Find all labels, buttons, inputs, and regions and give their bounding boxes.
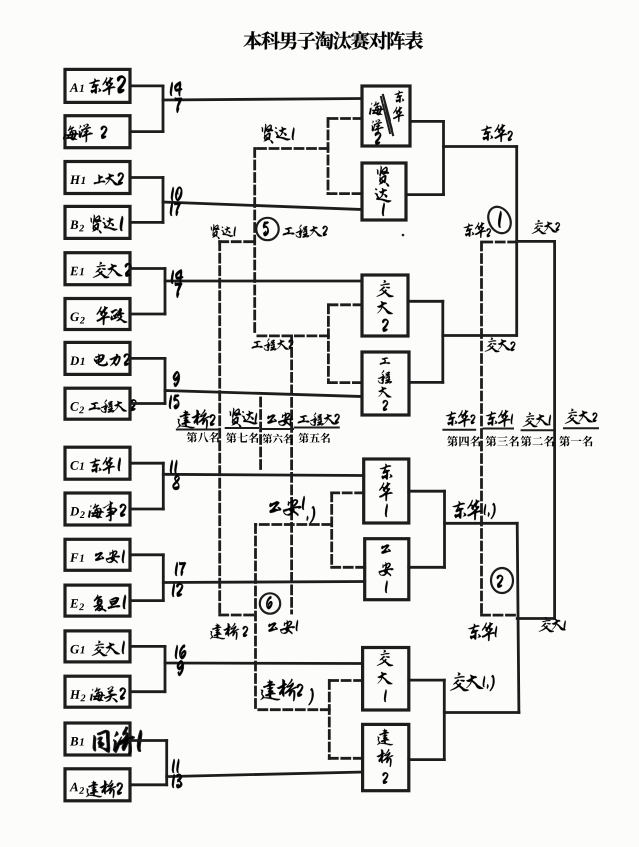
match circle 2 <box>491 568 513 593</box>
team box G2 华政 <box>65 299 130 330</box>
dashed wire third-place line <box>482 242 517 615</box>
label 贤达1 (match5 left) <box>211 224 236 239</box>
wire pair 1 bracket + winner line <box>130 86 362 132</box>
label 交大1 (SF4 winner) <box>450 672 495 691</box>
score pair 3: 14/7 <box>171 269 183 298</box>
wire final vertical (champion bracket) <box>553 241 556 618</box>
wire QF1 bracket (东华2 vs 贤达1) + winner line <box>406 121 517 194</box>
rank name 东华1 (3rd) <box>484 410 513 429</box>
label 工程大2 (QF2 loser) <box>252 338 294 351</box>
label 建桥2 (QF4 loser) <box>260 679 313 706</box>
QF box 贤达1 <box>362 163 406 220</box>
team box E2 复旦1 <box>65 585 130 616</box>
label 工程大2 (match5 right) <box>283 225 328 238</box>
rank label 第五名 <box>298 433 330 443</box>
label 公安1 (match6 right) <box>268 620 298 634</box>
rank name 建桥2 (8th) <box>177 409 218 429</box>
label 公安1 (QF3 loser) <box>269 496 315 524</box>
label 东华1 (third place) <box>468 622 497 641</box>
dashed wire QF2 losers bracket <box>255 305 362 383</box>
dashed wire 贤达1 drop line <box>253 149 256 336</box>
match circle 5 <box>256 218 278 240</box>
dashed wire 公安1 drop line <box>254 525 257 710</box>
label 东华1 (SF B winner) <box>452 499 495 520</box>
score pair 4: 9/15 <box>169 371 180 409</box>
score pair 8: 11/13 <box>172 759 182 789</box>
wire pair 4 bracket + winner line <box>130 358 362 403</box>
team box C2 工程大2 <box>65 388 136 419</box>
wire QF2 bracket (交大2 vs 工程大2) + winner line <box>408 301 517 382</box>
label 贤达1 (QF1 loser) <box>262 124 295 144</box>
wire pair 7 bracket + winner line <box>130 646 363 691</box>
ink dot <box>402 234 405 237</box>
rank label 第八名 <box>187 432 219 443</box>
score pair 2: 10/17 <box>170 187 182 216</box>
label 建桥2 (match6 left) <box>210 623 248 640</box>
rank label 第二名 <box>521 436 554 447</box>
team box D1 电力2 <box>65 342 130 374</box>
team box D2 海事2 <box>65 493 130 525</box>
team box A1 东华2 <box>65 69 130 102</box>
team box H1 上大2 <box>65 162 130 194</box>
label 交大1 (final winner bottom) <box>539 617 566 632</box>
rank name 公安1 (6th) <box>262 412 293 429</box>
team box 海洋2 <box>63 116 130 148</box>
score pair 7: 16/9 <box>175 645 186 676</box>
team box B1 同济1 <box>65 723 142 756</box>
dashed wire 工程大2 column to rank 5 <box>290 336 293 613</box>
title 本科男子淘汰赛对阵表 <box>244 31 423 50</box>
QF box 公安1 <box>365 539 409 600</box>
team box E1 交大2 <box>65 253 132 285</box>
wire pair 2 bracket + winner line <box>130 178 362 223</box>
rank label 第七名 <box>226 432 258 443</box>
rank name 东华2 (4th) <box>443 410 475 430</box>
dashed wire rank 7-6 separator <box>259 398 262 470</box>
score pair 5: 11/8 <box>170 460 180 490</box>
wire semifinal A vertical <box>515 147 518 336</box>
rank name 交大2 (1st) <box>564 409 598 428</box>
dashed wire QF1 losers bracket <box>255 119 362 194</box>
team box C1 东华1 <box>65 447 130 479</box>
wire final bottom: semifinal B winner to final <box>517 617 554 620</box>
QF box 交大2 <box>362 275 408 336</box>
dashed wire QF4 losers bracket <box>256 681 362 759</box>
QF box 交大1 <box>363 648 409 711</box>
label 交大2 (final winner top) <box>532 220 560 234</box>
team box F1 公安1 <box>65 539 130 570</box>
label 东华2 (SF A winner) <box>481 124 513 142</box>
wire pair 6 bracket + winner line <box>130 555 365 601</box>
wire final top: semifinal A winner to final <box>517 240 555 243</box>
team box H2 海关2 <box>65 676 130 707</box>
QF box 东华2 (海洋2 crossed out) <box>362 86 410 146</box>
team box B2 贤达1 <box>65 206 130 238</box>
wire semifinal B vertical <box>517 523 519 712</box>
team box G1 交大1 <box>65 631 130 662</box>
match circle 6 <box>260 593 280 613</box>
QF box 建桥2 <box>363 724 409 790</box>
match circle 1 <box>484 203 515 237</box>
dashed wire QF3 losers bracket <box>256 493 365 567</box>
rank label 第一名 <box>559 436 592 447</box>
score pair 6: 17/12 <box>172 562 186 597</box>
rank name 工程大2 (5th) <box>295 413 340 428</box>
rank name 交大1 (2nd) <box>522 413 554 431</box>
wire QF3 bracket (东华1 vs 公安1) + winner line <box>409 491 517 567</box>
wire pair 8 bracket + winner line <box>130 741 363 785</box>
wire pair 5 bracket + winner line <box>130 463 364 509</box>
label 交大2 (QF2 winner) <box>485 338 516 353</box>
team box A2 建桥2 <box>65 769 130 801</box>
rank label 第四名 <box>447 436 480 447</box>
wire pair 3 bracket + winner line <box>130 269 362 315</box>
wire QF4 bracket (交大1 vs 建桥2) + winner line <box>409 680 519 760</box>
rank name 贤达1 (7th) <box>226 408 258 428</box>
rank label 第六名 <box>262 434 292 444</box>
score pair 1: 14/7 <box>170 81 182 113</box>
label 东华2 (final left) <box>464 222 491 238</box>
QF box 东华1 <box>364 459 409 523</box>
rank label 第三名 <box>486 436 519 447</box>
QF box 工程大2 <box>362 352 409 415</box>
dashed wire rank-8 column <box>220 242 256 615</box>
